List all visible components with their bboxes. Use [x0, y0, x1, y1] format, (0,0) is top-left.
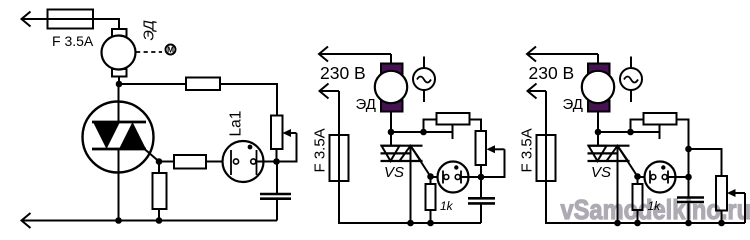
wire fuse to bottom rail: [339, 181, 481, 223]
potentiometer (vertical, right): [716, 176, 727, 211]
pot bottom lead: [276, 149, 278, 162]
resistor 1k: [633, 177, 643, 224]
node G junction dot (gate): [427, 173, 434, 180]
wiper wire to node B: [277, 133, 297, 162]
wire motor to node H: [597, 112, 599, 147]
wire main vertical through triac: [118, 84, 120, 221]
wire node J to pot top: [689, 149, 722, 176]
motor M1 (ЭД): [102, 29, 136, 77]
node L junction dot (gate): [634, 173, 641, 180]
wire node J down to node K: [688, 149, 690, 198]
wire fuse to bottom rail: [546, 181, 745, 223]
neon lamp La1: [223, 141, 277, 182]
neon lamp (middle): [431, 162, 482, 193]
wire node E to R top left lead: [424, 120, 437, 133]
resistor R1: [186, 78, 220, 91]
wire 230V bottom terminal arrow: [528, 84, 547, 136]
fuse F1 3.5A: [48, 10, 94, 29]
node E junction dot: [420, 129, 427, 136]
svg-text:F 3.5A: F 3.5A: [52, 33, 94, 49]
wire motor to node D: [390, 112, 392, 147]
capacitor (right): [677, 198, 704, 224]
wiper wire to node F: [481, 149, 505, 177]
AC source G1: [413, 57, 435, 103]
node K junction dot (lamp out): [685, 174, 692, 181]
wiper wire to bottom rail: [744, 193, 746, 223]
resistor R4 (to bottom rail): [153, 162, 167, 221]
node A junction dot: [116, 81, 123, 88]
wire top rail to motor: [597, 54, 599, 64]
triac VS (no circle): [588, 146, 630, 223]
fuse F 3.5A (vertical): [537, 135, 556, 181]
wire motor to node A: [118, 77, 120, 85]
wire node I to R top left lead: [631, 120, 644, 133]
wire 230V top terminal arrow: [319, 47, 391, 62]
node D junction dot: [388, 129, 395, 136]
tacho circle M: [166, 45, 176, 55]
motor ЭД (purple brushes): [582, 64, 614, 112]
svg-text:VS: VS: [591, 164, 611, 181]
junction dot rail/triac: [115, 217, 122, 224]
node F junction dot: [478, 174, 485, 181]
resistor 1k: [426, 177, 436, 224]
rheostat wiper stub: [452, 125, 454, 140]
wire R right to node J: [677, 120, 689, 150]
bottom rail with arrow: [22, 213, 278, 228]
wire top rail with arrow (mains terminal): [22, 12, 48, 27]
junction dot rail/pot: [718, 220, 725, 227]
resistor R (rheostat): [437, 113, 470, 125]
pot bottom lead: [480, 165, 482, 177]
wire node H to wiper tap: [598, 131, 660, 133]
svg-text:1k: 1k: [648, 199, 662, 213]
wire node A to R1: [119, 83, 186, 85]
svg-text:1k: 1k: [440, 199, 454, 213]
rheostat wiper stub: [659, 125, 661, 140]
pot wiper arrow: [487, 145, 505, 153]
wire 230V bottom terminal arrow: [320, 84, 340, 136]
junction dot rail/R4: [156, 217, 163, 224]
resistor R (rheostat): [644, 113, 677, 125]
potentiometer R2: [271, 116, 283, 150]
wire top rail to motor: [390, 54, 392, 64]
node B junction dot: [273, 158, 280, 165]
node C junction dot (gate): [156, 158, 163, 165]
junction dot rail/triac: [407, 220, 414, 227]
svg-text:ЭД: ЭД: [356, 96, 376, 113]
wire fuse to motor: [93, 19, 119, 29]
potentiometer (vertical): [476, 131, 487, 165]
wire R right to pot top: [470, 120, 482, 132]
wire 230V top terminal arrow: [527, 47, 598, 62]
svg-text:230 В: 230 В: [320, 63, 366, 83]
svg-text:ЭД: ЭД: [563, 96, 583, 113]
junction dot rail/triac: [614, 220, 621, 227]
dashed link to tacho M: [136, 51, 162, 53]
pot wiper arrow: [283, 129, 297, 137]
triac gate wire: [145, 149, 160, 162]
capacitor (middle): [468, 177, 495, 223]
resistor R3 (gate series): [159, 155, 223, 169]
svg-text:M: M: [167, 45, 174, 55]
AC source G2: [620, 57, 642, 103]
fuse F 3.5A (vertical): [330, 135, 349, 181]
svg-text:F 3.5A: F 3.5A: [312, 128, 329, 172]
triac VS1 (circle style): [83, 84, 154, 221]
pot wiper arrow: [727, 189, 745, 197]
capacitor C1: [260, 162, 291, 221]
triac VS (no circle): [381, 146, 423, 223]
triac gate diagonal: [618, 147, 638, 177]
svg-text:VS: VS: [384, 164, 404, 181]
node H junction dot: [595, 129, 602, 136]
triac gate diagonal: [411, 147, 431, 177]
svg-text:F 3.5A: F 3.5A: [519, 128, 536, 172]
node I junction dot: [627, 129, 634, 136]
junction dot rail/1k: [427, 220, 434, 227]
svg-text:230 В: 230 В: [529, 63, 575, 83]
neon lamp (right): [638, 162, 689, 193]
svg-text:La1: La1: [228, 111, 245, 137]
wire R1 to pot: [220, 84, 277, 116]
pot bottom lead: [721, 211, 723, 224]
motor ЭД (purple brushes): [375, 64, 407, 112]
svg-text:ЭД: ЭД: [141, 20, 158, 41]
node J junction dot: [685, 146, 692, 153]
junction dot rail/1k: [634, 220, 641, 227]
junction dot rail/cap: [685, 220, 692, 227]
wire node D to wiper tap: [391, 131, 453, 133]
